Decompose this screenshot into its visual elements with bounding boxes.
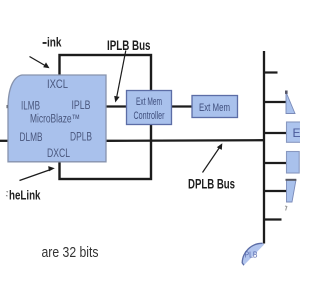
node tiny mark below tick 6 — [285, 206, 287, 211]
block MicroBlaze processor — [8, 75, 106, 162]
wire rail tick 3 — [264, 132, 288, 134]
wire rail tick 2 — [264, 101, 286, 103]
svg-text:DLMB: DLMB — [20, 130, 43, 144]
svg-text:PLB: PLB — [245, 250, 258, 260]
label Link (CacheLink, cut off) — [43, 42, 47, 44]
svg-text:IPLB Bus: IPLB Bus — [107, 38, 151, 53]
label heLink (CacheLink, cut off) — [6, 192, 8, 197]
arrow DPLB Bus leader — [203, 148, 220, 173]
wire right vertical rail — [263, 51, 265, 244]
arrow IPLB Bus leader — [117, 51, 126, 97]
block peripheral triangle (cut off) — [286, 92, 295, 114]
svg-text:Controller: Controller — [134, 110, 165, 122]
arrow from Link label to IXCL corner — [30, 57, 46, 66]
svg-text:are 32 bits: are 32 bits — [42, 245, 99, 261]
svg-text:DPLB Bus: DPLB Bus — [188, 176, 235, 191]
svg-text:IXCL: IXCL — [47, 77, 68, 91]
svg-text:Ext Mem: Ext Mem — [136, 96, 162, 108]
wire DLMB stub — [0, 140, 9, 142]
node triangle apex mark — [285, 91, 288, 94]
block PLB balloon (circle segment, cut off) — [242, 243, 264, 265]
wire rail tick 1 — [264, 71, 278, 73]
block peripheral rectangle (cut off) — [287, 152, 300, 174]
svg-text:Ext Mem: Ext Mem — [199, 102, 230, 114]
block Ext Mem Controller — [127, 91, 172, 125]
arrow from heLink label to DXCL corner — [20, 170, 51, 181]
svg-text:heLink: heLink — [9, 188, 41, 202]
svg-text:DXCL: DXCL — [47, 146, 70, 160]
svg-text:IPLB: IPLB — [72, 98, 91, 112]
wire rail tick 5 — [264, 190, 287, 192]
svg-text:DPLB: DPLB — [70, 130, 92, 144]
svg-text:ink: ink — [47, 35, 62, 49]
wire bus-loop rectangle (IXCL/DXCL cache link loop) — [60, 55, 152, 179]
svg-text:E: E — [293, 126, 301, 140]
svg-text:ILMB: ILMB — [21, 99, 40, 113]
wire IPLB bus line — [106, 105, 193, 107]
svg-text:MicroBlaze™: MicroBlaze™ — [30, 114, 80, 126]
node ILMB port dot — [7, 105, 9, 108]
node trapezoid top mark — [286, 179, 297, 181]
wire DPLB bus line — [106, 139, 265, 142]
block peripheral E box (cut off) — [287, 122, 302, 142]
block Ext Mem — [192, 96, 238, 118]
block peripheral trapezoid (cut off) — [287, 180, 297, 202]
wire rail tick 4 — [264, 162, 287, 164]
wire rail tick 6 — [264, 218, 282, 220]
